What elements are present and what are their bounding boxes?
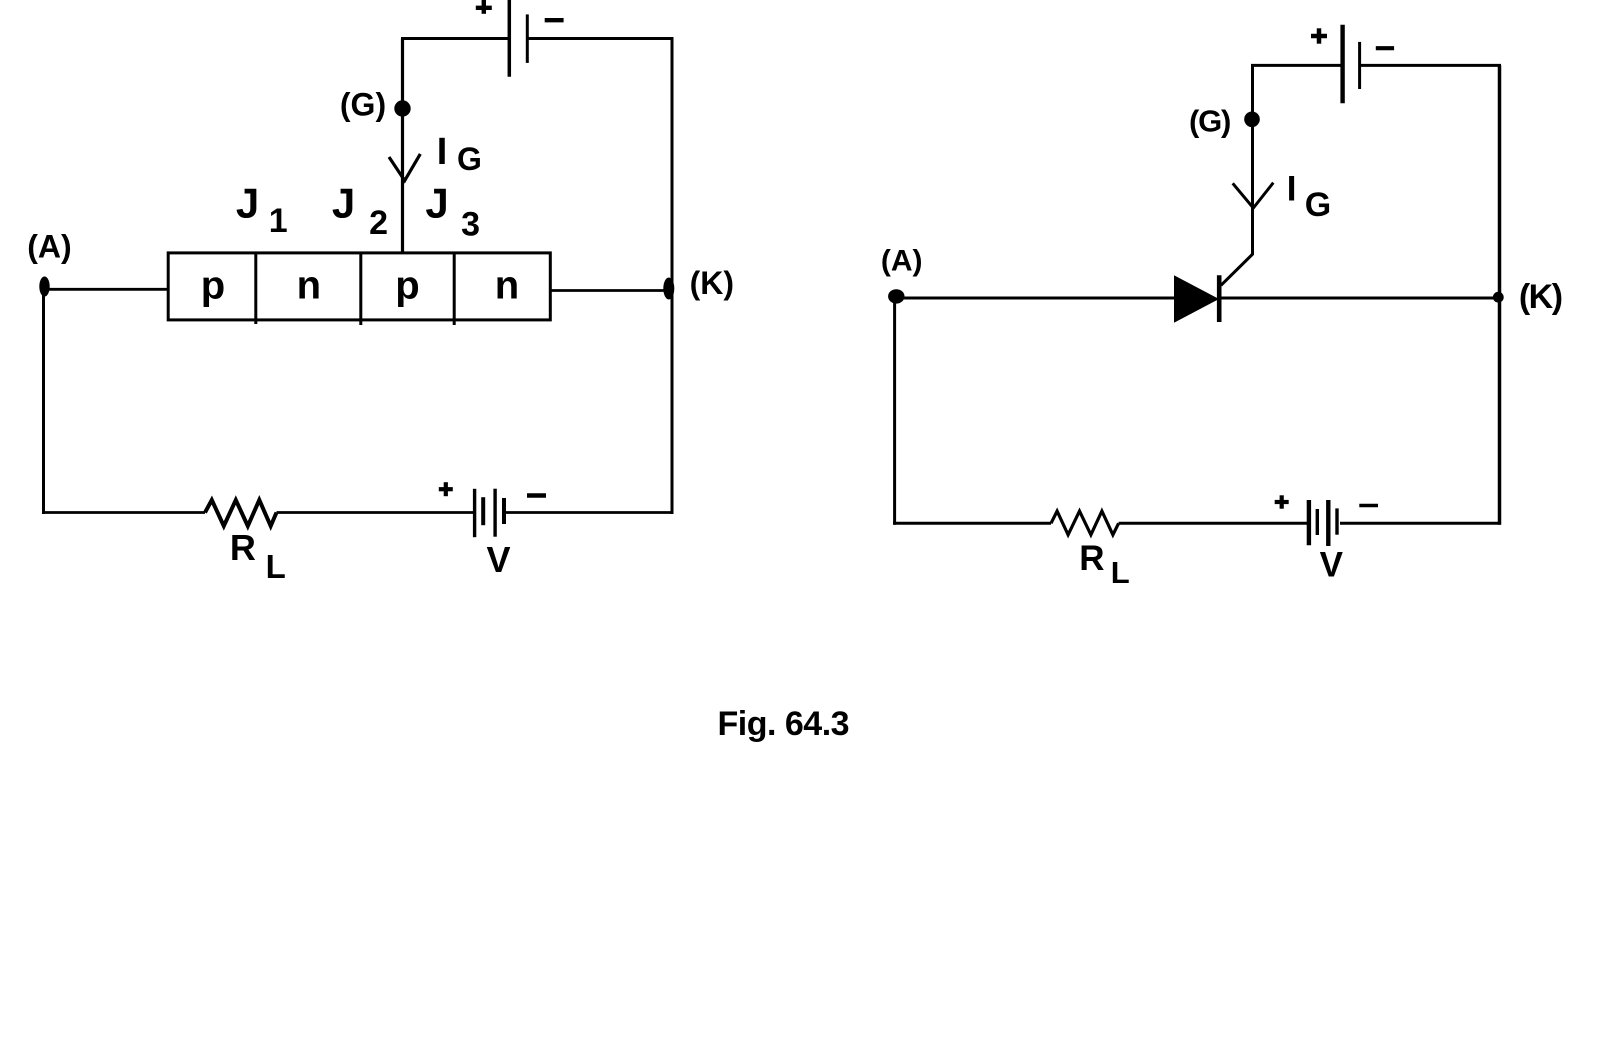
- svg-text:(K): (K): [690, 265, 734, 301]
- svg-text:Fig. 64.3: Fig. 64.3: [718, 705, 850, 743]
- svg-text:(K): (K): [1519, 278, 1562, 316]
- svg-text:J: J: [236, 180, 259, 227]
- svg-text:(G): (G): [1189, 104, 1230, 139]
- svg-text:p: p: [395, 263, 419, 307]
- battery B1 (gate bias, left circuit) long positive plate: [508, 0, 512, 77]
- wire battery B2 to top-right corner: [1361, 64, 1502, 67]
- svg-text:R: R: [1079, 539, 1104, 578]
- svg-text:G: G: [457, 141, 482, 177]
- current arrow IG (right circuit): [1233, 183, 1274, 208]
- wire battery V to bottom-right corner (right circuit): [1340, 522, 1501, 525]
- svg-text:I: I: [1287, 170, 1297, 209]
- current arrow IG (left circuit): [389, 154, 420, 181]
- junction J2 divider: [359, 253, 362, 325]
- svg-text:(G): (G): [340, 87, 386, 123]
- junction J3 divider: [453, 253, 456, 325]
- battery V plus label (left circuit): [439, 482, 453, 496]
- node A (right circuit): [888, 289, 904, 303]
- wire bottom-left segment to resistor: [42, 511, 205, 514]
- svg-text:(A): (A): [881, 244, 923, 277]
- resistor RL (left circuit): [205, 500, 277, 526]
- resistor RL (right circuit): [1051, 511, 1119, 535]
- wire left vertical (right circuit): [893, 298, 896, 525]
- svg-text:p: p: [201, 263, 225, 307]
- wire top-left segment to battery B1: [401, 37, 509, 40]
- wire gate vertical (right circuit): [1251, 65, 1254, 255]
- svg-text:V: V: [1320, 546, 1344, 585]
- battery B2 (gate bias, right circuit) long positive plate: [1340, 25, 1344, 104]
- wire left vertical (left circuit): [42, 287, 45, 514]
- svg-text:V: V: [486, 539, 510, 580]
- wire SCR to cathode node: [1219, 297, 1500, 300]
- wire resistor to battery V (left circuit): [277, 511, 475, 514]
- svg-text:J: J: [332, 180, 355, 227]
- svg-text:1: 1: [269, 202, 288, 240]
- node G (right circuit): [1244, 112, 1260, 128]
- SCR U1 anode triangle: [1174, 275, 1219, 322]
- battery B1 minus label: [545, 18, 564, 22]
- wire bottom-left segment to resistor (right circuit): [893, 522, 1051, 525]
- wire resistor to battery V (right circuit): [1119, 522, 1309, 525]
- svg-text:L: L: [1111, 555, 1130, 590]
- svg-text:R: R: [230, 527, 256, 568]
- battery V plus label (right circuit): [1275, 495, 1289, 508]
- node G (left circuit): [394, 100, 410, 116]
- wire pnpn box to cathode node: [550, 289, 669, 292]
- gate diagonal lead into cathode bar: [1221, 254, 1253, 285]
- battery B2 short negative plate: [1358, 42, 1361, 89]
- svg-text:3: 3: [461, 206, 480, 244]
- svg-text:L: L: [266, 548, 286, 585]
- wire anode to pnpn box: [45, 288, 169, 291]
- node K (left circuit): [663, 278, 674, 300]
- battery B2 plus label: [1311, 28, 1327, 43]
- battery B1 plus label: [476, 0, 492, 14]
- svg-text:n: n: [297, 263, 321, 307]
- battery B1 short negative plate: [526, 14, 529, 63]
- node A (left circuit): [39, 277, 49, 297]
- battery V minus label (right circuit): [1359, 504, 1378, 508]
- wire right vertical (left circuit): [671, 39, 674, 515]
- svg-text:2: 2: [369, 204, 388, 242]
- svg-text:(A): (A): [27, 229, 71, 265]
- wire top-left segment to battery B2: [1251, 64, 1343, 67]
- wire right vertical (right circuit): [1498, 65, 1502, 524]
- junction J1 divider: [254, 253, 257, 324]
- battery V minus label (left circuit): [527, 493, 546, 498]
- wire battery B1 to top-right corner: [527, 37, 673, 40]
- node K (right circuit): [1493, 292, 1504, 303]
- battery V (left circuit) plates: [475, 489, 504, 538]
- wire battery V to bottom-right corner (left circuit): [504, 511, 674, 514]
- battery B2 minus label: [1376, 46, 1394, 50]
- svg-text:I: I: [437, 131, 448, 173]
- wire gate vertical (left circuit): [401, 39, 404, 254]
- thyristor pnpn structure box: [168, 253, 550, 320]
- svg-text:J: J: [425, 180, 448, 227]
- battery V (right circuit) plates: [1309, 500, 1337, 546]
- svg-text:n: n: [495, 263, 519, 307]
- wire anode node to SCR: [896, 297, 1174, 300]
- svg-text:G: G: [1305, 186, 1331, 224]
- SCR U1 cathode bar: [1217, 275, 1222, 322]
